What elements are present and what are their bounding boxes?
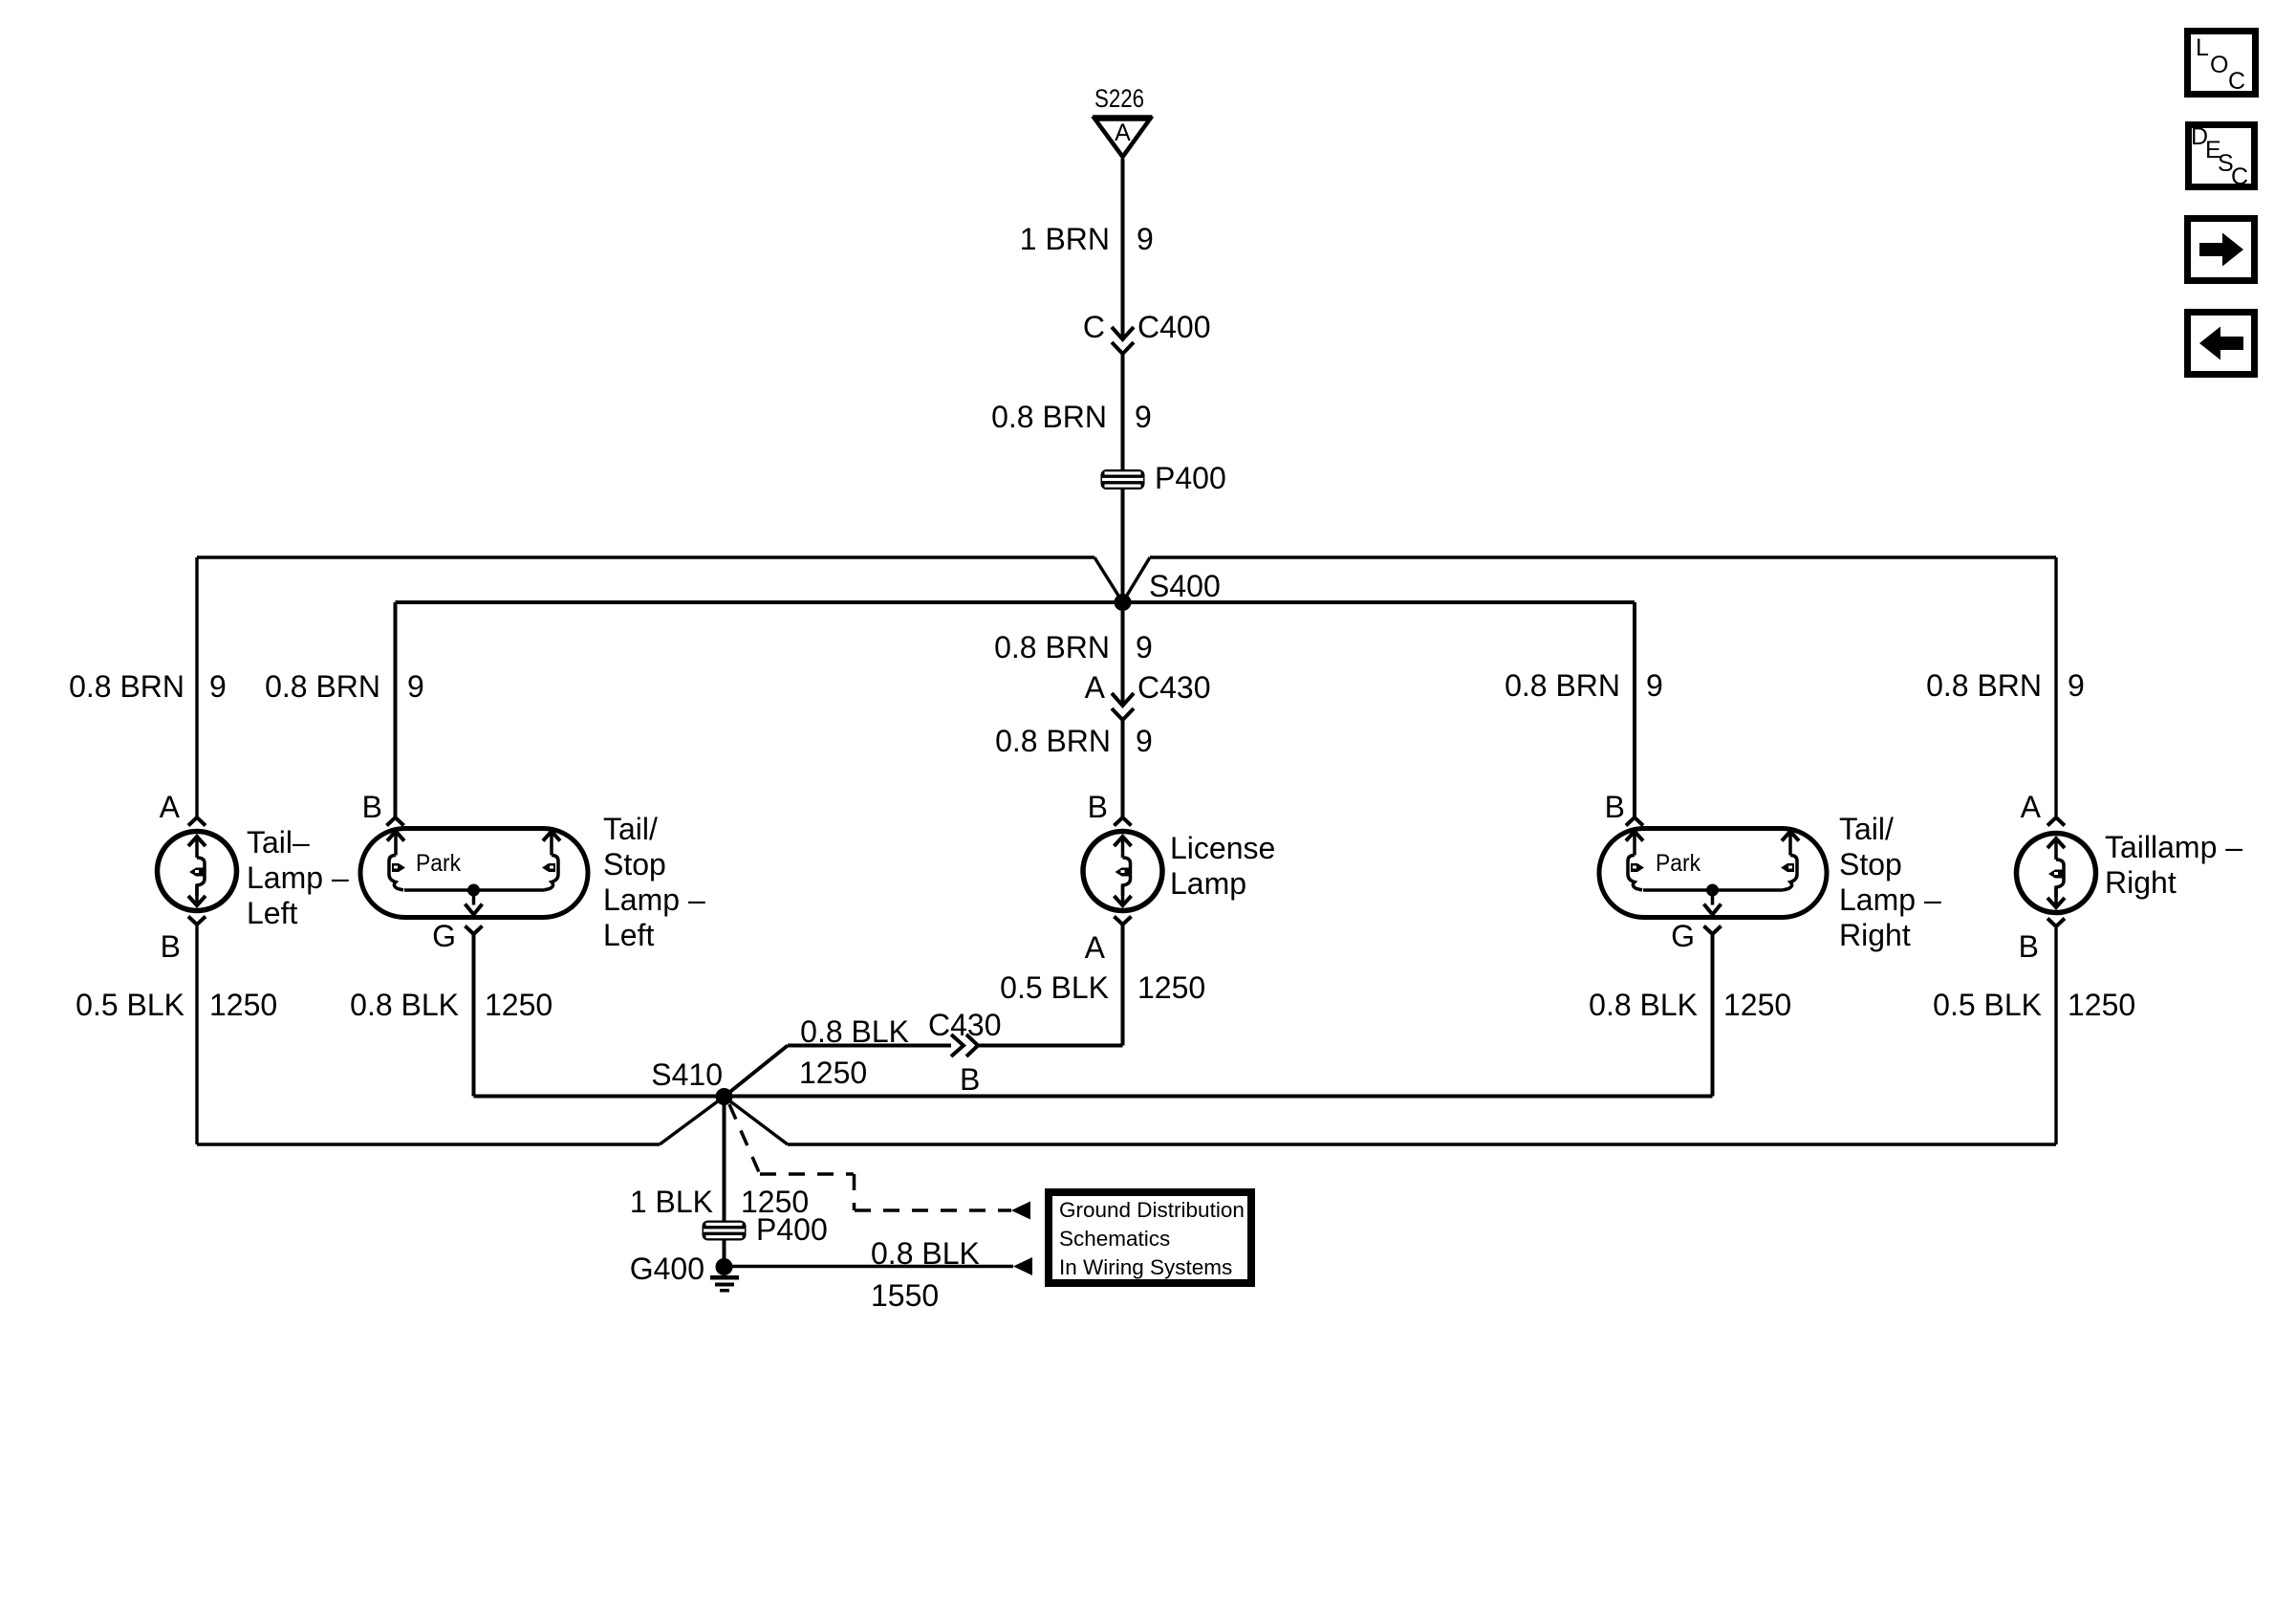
- grommet P400 (top): [1101, 469, 1145, 490]
- svg-text:1 BLK: 1 BLK: [630, 1185, 713, 1219]
- pin B connector tail/stop right: [1626, 817, 1643, 826]
- wire 0.8 BRN 9 to tail/stop lamp left: [394, 602, 398, 817]
- svg-text:Stop: Stop: [603, 847, 666, 882]
- nav button DESC: [2189, 125, 2255, 187]
- svg-text:Lamp –: Lamp –: [603, 882, 705, 917]
- svg-text:1250: 1250: [799, 1056, 867, 1090]
- svg-text:Lamp –: Lamp –: [1839, 882, 1941, 917]
- wire P400 to G400: [723, 1240, 726, 1260]
- svg-text:G: G: [1671, 919, 1695, 953]
- svg-text:1250: 1250: [485, 988, 552, 1022]
- tail/stop lamp left: [360, 829, 588, 918]
- pin G connector tail/stop right: [1704, 926, 1722, 935]
- pin B connector taillamp right: [2047, 919, 2065, 927]
- svg-text:C: C: [2231, 163, 2248, 190]
- svg-text:0.8 BRN: 0.8 BRN: [995, 724, 1111, 758]
- splice symbol S226 triangle: [1095, 120, 1151, 158]
- svg-text:S410: S410: [651, 1057, 723, 1092]
- inner wire through S410 to park lamp grounds: [474, 1095, 1713, 1099]
- svg-text:Right: Right: [1839, 918, 1911, 952]
- svg-text:9: 9: [209, 669, 227, 704]
- svg-text:B: B: [161, 929, 181, 964]
- grommet P400 (bottom): [703, 1221, 747, 1241]
- svg-text:C430: C430: [1137, 670, 1211, 705]
- ground symbol bars: [710, 1275, 739, 1280]
- pin G connector tail/stop left: [466, 926, 483, 935]
- connector C400 pin C: [1112, 327, 1134, 339]
- connector C430 pin B: [951, 1034, 964, 1056]
- nav button forward arrow: [2188, 219, 2255, 281]
- svg-text:0.8 BRN: 0.8 BRN: [1505, 668, 1620, 703]
- tail/stop lamp right: [1599, 829, 1827, 918]
- svg-text:Left: Left: [603, 918, 654, 952]
- taillamp right bulb: [2017, 834, 2096, 913]
- svg-text:Lamp: Lamp: [1170, 866, 1246, 901]
- wire C430 to S410: [788, 1044, 951, 1048]
- svg-text:Tail/: Tail/: [603, 812, 658, 846]
- svg-text:Tail/: Tail/: [1839, 812, 1894, 846]
- svg-text:P400: P400: [756, 1212, 828, 1247]
- svg-text:A: A: [160, 790, 181, 824]
- svg-text:9: 9: [1137, 222, 1154, 256]
- svg-text:C430: C430: [928, 1008, 1002, 1042]
- splice S400: [1115, 594, 1132, 611]
- wire 0.8 BLK 1250 right park lamp: [1711, 934, 1715, 1097]
- wire diagonal into S410 from left: [660, 1097, 725, 1144]
- splice S410: [716, 1088, 733, 1105]
- svg-text:0.5 BLK: 0.5 BLK: [1933, 988, 2042, 1022]
- wire 0.8 BRN 9 right taillamp: [2054, 557, 2057, 817]
- svg-text:S400: S400: [1149, 569, 1221, 603]
- svg-text:License: License: [1170, 831, 1275, 865]
- svg-text:0.5 BLK: 0.5 BLK: [1000, 970, 1109, 1005]
- reference box Ground Distribution: [1049, 1192, 1251, 1283]
- ground G400: [716, 1258, 733, 1275]
- svg-text:Tail–: Tail–: [247, 825, 310, 860]
- pin B connector tail lamp left: [188, 917, 206, 925]
- svg-text:B: B: [960, 1062, 980, 1097]
- svg-text:In Wiring Systems: In Wiring Systems: [1059, 1255, 1232, 1279]
- inner wire S400 to park lamps: [396, 600, 1635, 604]
- wire diagonal into S410: [725, 1046, 789, 1098]
- svg-text:0.8 BRN: 0.8 BRN: [994, 630, 1110, 664]
- svg-text:A: A: [1085, 670, 1106, 705]
- wire bottom edge right: [788, 1143, 2056, 1145]
- wire 0.8 BRN 9 left tail lamp: [195, 557, 198, 817]
- svg-text:1550: 1550: [871, 1278, 939, 1313]
- wire P400 to splice S400: [1121, 490, 1125, 602]
- arrowhead to ground distribution box: [1013, 1257, 1032, 1275]
- svg-text:B: B: [2019, 929, 2039, 964]
- svg-text:1250: 1250: [1723, 988, 1791, 1022]
- svg-text:0.8 BRN: 0.8 BRN: [69, 669, 184, 704]
- nav button back arrow: [2188, 313, 2255, 375]
- pin A connector taillamp right: [2047, 817, 2065, 826]
- connector C430 pin A: [1112, 693, 1134, 706]
- svg-text:B: B: [1605, 790, 1625, 824]
- svg-text:Right: Right: [2105, 865, 2177, 900]
- svg-text:1250: 1250: [2068, 988, 2135, 1022]
- svg-text:Ground Distribution: Ground Distribution: [1059, 1198, 1245, 1222]
- svg-text:P400: P400: [1155, 461, 1226, 495]
- pin A connector tail lamp left: [188, 817, 206, 826]
- tail lamp left bulb: [158, 832, 237, 911]
- svg-text:G: G: [432, 919, 456, 953]
- wire 0.8 BLK 1250 left park lamp: [472, 934, 476, 1097]
- svg-text:0.8 BRN: 0.8 BRN: [265, 669, 380, 704]
- svg-text:A: A: [1115, 120, 1131, 146]
- wire 0.5 BLK 1250 right: [2054, 926, 2057, 1144]
- svg-text:1250: 1250: [1137, 970, 1205, 1005]
- wire 0.8 BRN 9 from C430 to license lamp: [1121, 720, 1125, 817]
- wire 0.5 BLK 1250 from license lamp: [1121, 925, 1125, 1046]
- wire 0.8 BRN 9 from S400 to C430: [1121, 611, 1125, 706]
- svg-text:0.8 BRN: 0.8 BRN: [1926, 668, 2042, 703]
- svg-text:1 BRN: 1 BRN: [1020, 222, 1110, 256]
- svg-text:Park: Park: [1656, 850, 1700, 877]
- svg-text:L: L: [2196, 34, 2209, 61]
- wire diagonal into S400 from left: [1094, 557, 1123, 602]
- svg-text:Schematics: Schematics: [1059, 1227, 1170, 1251]
- svg-text:Left: Left: [247, 896, 297, 930]
- svg-text:9: 9: [1135, 400, 1152, 434]
- dashed reference wire from S410: [729, 1104, 1011, 1210]
- svg-text:9: 9: [1136, 630, 1153, 664]
- wire 1 BLK 1250 from S410 to P400: [723, 1097, 726, 1222]
- pin B connector tail/stop left: [387, 817, 404, 826]
- pin A connector license lamp: [1115, 917, 1132, 925]
- svg-text:A: A: [1085, 930, 1106, 965]
- svg-text:S226: S226: [1094, 84, 1144, 113]
- pin B connector license lamp: [1115, 817, 1132, 826]
- wire diagonal into S400 from right: [1123, 557, 1151, 602]
- svg-text:O: O: [2210, 52, 2228, 78]
- svg-text:A: A: [2021, 790, 2042, 824]
- svg-text:1250: 1250: [209, 988, 277, 1022]
- svg-text:9: 9: [407, 669, 424, 704]
- wire top edge right of S400: [1150, 555, 2056, 558]
- svg-text:C: C: [2228, 68, 2245, 95]
- svg-text:C: C: [1083, 310, 1105, 344]
- wire to C430 pin B: [978, 1044, 1123, 1048]
- svg-text:Park: Park: [416, 850, 461, 877]
- wire top edge left of S400: [197, 555, 1094, 558]
- svg-text:Stop: Stop: [1839, 847, 1902, 882]
- wire 0.5 BLK 1250 left: [195, 925, 198, 1144]
- svg-text:0.8 BLK: 0.8 BLK: [871, 1236, 980, 1271]
- wire 0.8 BLK 1550 to ground distribution: [732, 1265, 1013, 1269]
- svg-text:0.8 BLK: 0.8 BLK: [350, 988, 459, 1022]
- svg-text:0.8 BLK: 0.8 BLK: [1589, 988, 1698, 1022]
- svg-text:Taillamp –: Taillamp –: [2105, 830, 2242, 864]
- svg-text:B: B: [362, 790, 382, 824]
- wire diagonal into S410 to right: [725, 1097, 789, 1144]
- license lamp bulb: [1083, 832, 1162, 911]
- svg-text:9: 9: [2068, 668, 2085, 703]
- wire 0.8 BRN 9 from C400 to P400: [1121, 354, 1125, 470]
- svg-text:G400: G400: [630, 1252, 704, 1286]
- svg-text:9: 9: [1646, 668, 1663, 703]
- svg-text:B: B: [1088, 790, 1108, 824]
- wire bottom edge left: [197, 1143, 660, 1145]
- svg-text:Lamp –: Lamp –: [247, 860, 349, 895]
- svg-text:C400: C400: [1137, 310, 1211, 344]
- svg-text:9: 9: [1136, 724, 1153, 758]
- svg-text:0.8 BRN: 0.8 BRN: [991, 400, 1107, 434]
- wire 0.8 BRN 9 to tail/stop lamp right: [1633, 602, 1636, 817]
- arrowhead dashed reference: [1011, 1202, 1030, 1220]
- wire 1 BRN 9 from S226 to C400: [1121, 159, 1125, 339]
- nav button LOC: [2188, 32, 2256, 95]
- svg-text:0.5 BLK: 0.5 BLK: [76, 988, 184, 1022]
